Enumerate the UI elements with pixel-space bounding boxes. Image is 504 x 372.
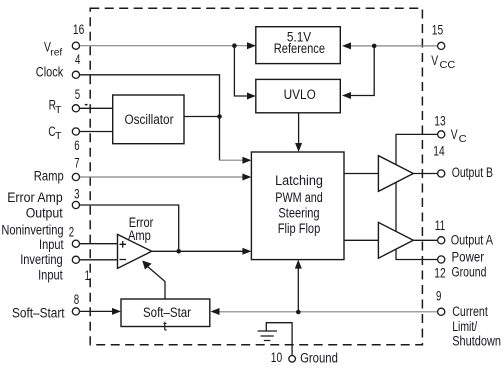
- svg-text:Flip Flop: Flip Flop: [278, 221, 321, 236]
- stray dash mark near RT pin: [85, 104, 88, 106]
- svg-text:1: 1: [85, 268, 90, 283]
- arrow into UVLO right: [342, 92, 351, 99]
- buffer B triangle: [378, 156, 413, 192]
- pin 11 circle: [438, 237, 445, 244]
- latching PWM block: [251, 152, 344, 260]
- svg-text:4: 4: [75, 52, 81, 67]
- arrow error amp output into PWM: [242, 248, 251, 255]
- pin 9 circle: [438, 308, 445, 315]
- pin 7 circle: [72, 173, 79, 180]
- node oscillator output junction: [217, 114, 222, 119]
- node Vref junction: [232, 43, 237, 48]
- svg-text:Ramp: Ramp: [34, 169, 64, 184]
- svg-text:Oscillator: Oscillator: [124, 112, 174, 127]
- svg-text:Clock: Clock: [36, 64, 64, 79]
- oscillator block: [113, 95, 184, 144]
- svg-text:5: 5: [75, 87, 80, 102]
- wire soft-start to error amp (diagonal arrow): [147, 266, 165, 299]
- svg-text:Steering: Steering: [278, 205, 319, 220]
- svg-text:Error Amp: Error Amp: [7, 190, 63, 205]
- wire RT pin5 to oscillator: [80, 107, 113, 109]
- arrow into soft-start block: [112, 308, 121, 315]
- wire current limit pin9 line (gray): [214, 311, 438, 313]
- arrow into UVLO left: [247, 93, 256, 100]
- wire VCC pin15 to reference (gray): [351, 45, 438, 47]
- svg-text:ref: ref: [50, 47, 62, 59]
- wire Clock pin4 down to oscillator output node: [80, 75, 220, 117]
- wire error amp output to PWM: [152, 250, 243, 252]
- op-amp error amp triangle: [118, 234, 152, 268]
- error amp minus sign: [120, 259, 127, 261]
- svg-text:Soft–Start: Soft–Start: [12, 306, 65, 321]
- wire CT pin6 to oscillator: [80, 131, 113, 133]
- wire buffer B apex to pin14: [413, 173, 437, 175]
- svg-text:Limit/: Limit/: [452, 319, 477, 334]
- wire pin10 ground connection: [266, 323, 292, 356]
- svg-text:11: 11: [435, 218, 446, 233]
- pin 6 circle: [72, 128, 79, 135]
- pin 14 circle: [438, 170, 445, 177]
- svg-text:Ground: Ground: [452, 264, 487, 279]
- wire oscillator corner to PWM (gray): [219, 159, 243, 161]
- pin 15 circle: [438, 42, 445, 49]
- wire VC line from buffer B top: [396, 134, 438, 164]
- wire Ramp pin7 to PWM (gray): [80, 176, 243, 178]
- svg-text:10: 10: [271, 350, 282, 365]
- svg-text:14: 14: [433, 144, 445, 159]
- svg-text:7: 7: [74, 155, 79, 170]
- pin 1 circle: [72, 256, 79, 263]
- svg-text:PWM and: PWM and: [275, 190, 323, 205]
- wire PWM to output A buffer: [344, 239, 378, 241]
- node current limit junction: [296, 310, 301, 315]
- svg-text:Power: Power: [452, 249, 485, 264]
- svg-text:Soft–Star: Soft–Star: [143, 305, 191, 320]
- svg-text:6: 6: [74, 138, 79, 153]
- svg-text:13: 13: [434, 114, 445, 129]
- wire error amp output pin3 feedback: [80, 205, 179, 251]
- svg-text:Input: Input: [39, 237, 64, 252]
- wire oscillator output to PWM (down then right): [184, 117, 220, 161]
- svg-text:UVLO: UVLO: [284, 87, 316, 102]
- pin 5 circle: [72, 105, 79, 112]
- svg-text:12: 12: [434, 266, 445, 281]
- svg-text:3: 3: [74, 187, 79, 202]
- svg-text:T: T: [55, 130, 62, 142]
- IC boundary dashed border: [90, 8, 422, 345]
- wire buffer A apex to pin11: [413, 239, 437, 241]
- wire soft-start pin8 to soft-start block: [80, 310, 114, 312]
- node feedback junction: [176, 249, 181, 254]
- svg-text:Noninverting: Noninverting: [1, 222, 63, 237]
- pin 16 circle: [72, 42, 79, 49]
- soft-start block: [121, 299, 210, 327]
- wire Vref branch down to UVLO: [234, 46, 247, 96]
- wire inverting input pin1: [80, 259, 118, 261]
- svg-text:Input: Input: [38, 268, 63, 283]
- svg-text:V: V: [451, 127, 458, 142]
- arrow into error amp underside: [142, 261, 151, 270]
- svg-text:Output B: Output B: [452, 165, 493, 180]
- 5.1V reference block: [256, 27, 340, 64]
- svg-text:Output: Output: [26, 206, 63, 221]
- error amp plus sign: [120, 241, 127, 248]
- UVLO block: [256, 79, 340, 112]
- svg-text:Ground: Ground: [300, 350, 338, 365]
- arrow into reference left: [247, 42, 256, 49]
- node VCC junction: [372, 44, 377, 49]
- svg-text:T: T: [55, 104, 62, 116]
- pin 3 circle: [72, 201, 79, 208]
- svg-text:C: C: [459, 133, 467, 145]
- svg-text:Amp: Amp: [128, 228, 151, 243]
- svg-text:Inverting: Inverting: [20, 252, 63, 267]
- svg-text:CC: CC: [440, 59, 456, 71]
- svg-text:Shutdown: Shutdown: [452, 333, 501, 348]
- svg-text:Output A: Output A: [451, 233, 493, 248]
- svg-text:16: 16: [73, 22, 84, 37]
- wire Vref pin16 to reference (gray): [80, 45, 248, 47]
- arrow down into PWM top: [295, 143, 302, 152]
- svg-text:2: 2: [69, 224, 74, 239]
- wire VCC branch down to UVLO: [351, 46, 374, 96]
- svg-text:9: 9: [436, 289, 441, 304]
- pin 13 circle: [438, 131, 445, 138]
- buffer A triangle: [378, 222, 413, 258]
- ground symbol: [258, 331, 277, 341]
- wire noninverting input pin2: [80, 243, 118, 245]
- arrow oscillator into PWM: [242, 157, 251, 164]
- pin 12 circle: [438, 256, 445, 263]
- svg-text:15: 15: [432, 23, 443, 38]
- pin 8 circle: [72, 308, 79, 315]
- wire PWM to output B buffer: [344, 173, 378, 175]
- arrow into reference right: [342, 42, 351, 49]
- svg-text:Current: Current: [452, 304, 488, 319]
- svg-text:8: 8: [74, 292, 79, 307]
- pin 10 circle: [289, 356, 296, 363]
- pin 4 circle: [72, 71, 79, 78]
- arrow up into PWM bottom: [295, 260, 302, 269]
- pin 2 circle: [72, 240, 79, 247]
- svg-text:V: V: [431, 53, 438, 68]
- wire UVLO down to PWM: [298, 113, 300, 143]
- svg-text:Reference: Reference: [274, 41, 325, 56]
- arrow ramp into PWM: [242, 174, 251, 181]
- wire emitter line buffer B down to power ground: [396, 182, 438, 259]
- svg-text:t: t: [163, 319, 167, 334]
- arrow into soft-start right: [211, 308, 220, 315]
- wire junction up to PWM bottom: [297, 266, 299, 312]
- svg-text:Latching: Latching: [275, 173, 323, 188]
